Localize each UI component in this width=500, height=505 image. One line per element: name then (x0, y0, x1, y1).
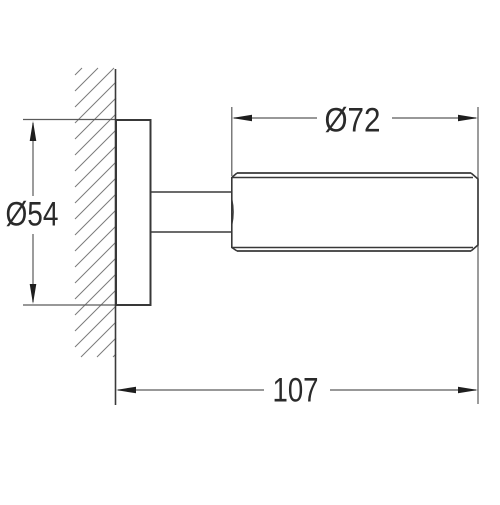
svg-text:107: 107 (273, 372, 319, 410)
svg-text:Ø72: Ø72 (325, 102, 381, 140)
svg-text:Ø54: Ø54 (6, 196, 59, 234)
